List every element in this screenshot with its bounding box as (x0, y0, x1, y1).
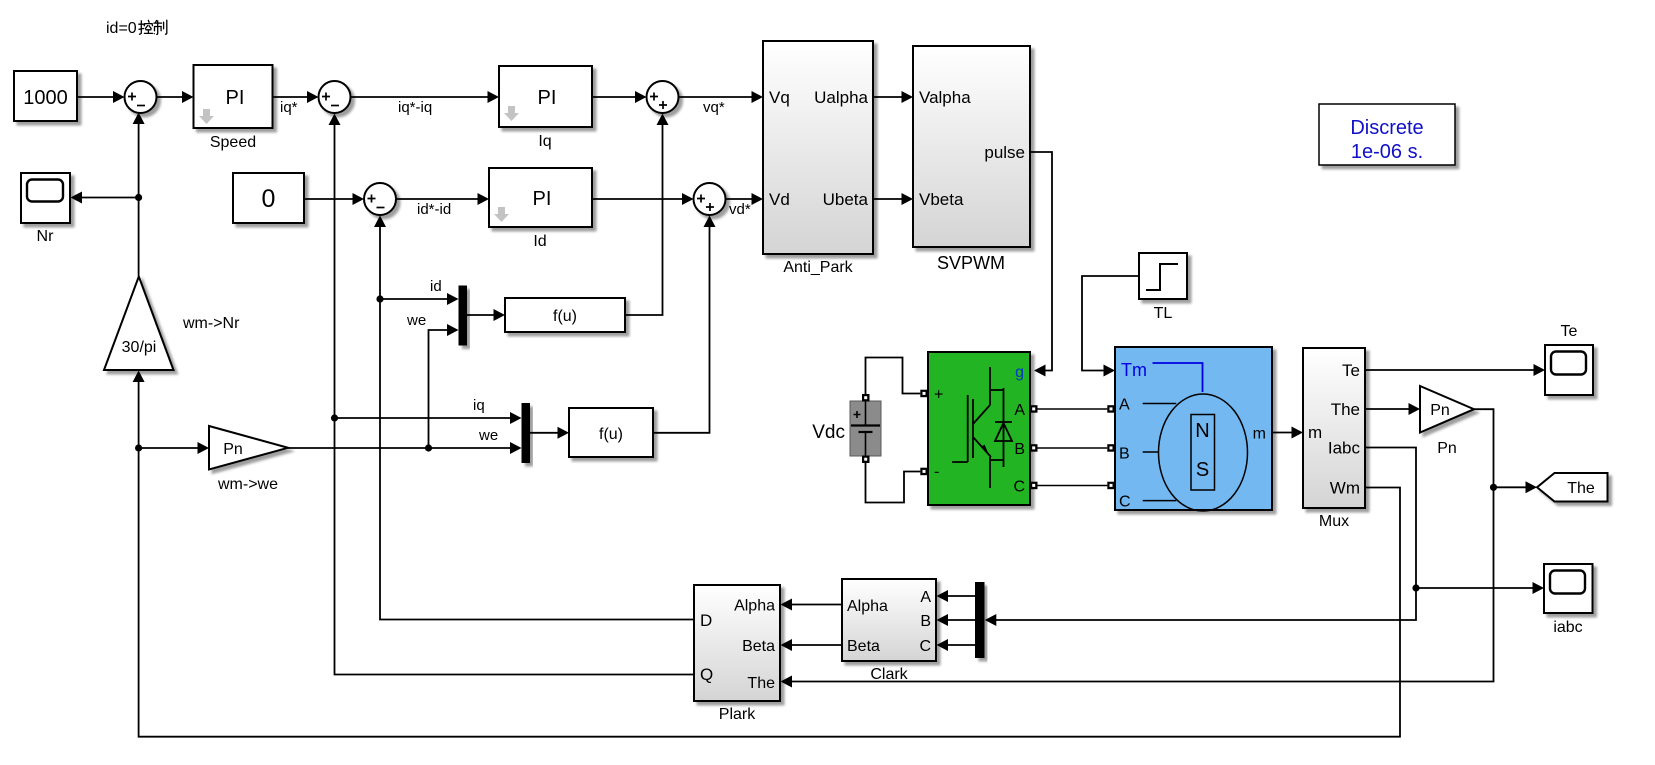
svg-text:C: C (919, 638, 931, 655)
svg-text:C: C (1013, 479, 1025, 496)
wire f(u)1 to sum4 bottom (625, 114, 669, 316)
wire iq tap to mux2 (335, 397, 522, 424)
svg-text:Vdc: Vdc (812, 422, 845, 443)
svg-text:B: B (1119, 446, 1130, 463)
svg-text:D: D (700, 611, 712, 630)
scope Te (1545, 323, 1593, 395)
wire 1000 to sum1 (77, 91, 125, 103)
svg-text:30/pi: 30/pi (122, 339, 157, 356)
wire Clark Beta to Plark Beta (781, 639, 843, 651)
wire motor m to Mux (1272, 427, 1303, 439)
svg-text:wm->Nr: wm->Nr (182, 315, 240, 332)
wire id tap to mux1 (380, 278, 459, 305)
inverter bridge (Universal Bridge) (928, 352, 1030, 505)
wire demux A to Clark A (937, 590, 976, 602)
port square bridge minus (920, 468, 928, 476)
svg-text:Iq: Iq (538, 133, 551, 150)
port square motor A (1107, 405, 1115, 413)
wire TL to motor Tm (1082, 276, 1139, 377)
svg-text:Wm: Wm (1330, 479, 1360, 498)
sum S5 (694, 183, 726, 215)
wire Mux Te to scope Te (1365, 364, 1545, 376)
svg-text:id=0: id=0 (106, 20, 137, 37)
svg-text:Vq: Vq (769, 88, 790, 107)
svg-text:SVPWM: SVPWM (937, 253, 1005, 273)
constant 0 (233, 173, 304, 223)
gain Pn right (1420, 386, 1474, 457)
wire tap to scope iabc (1416, 582, 1544, 594)
svg-text:1e-06 s.: 1e-06 s. (1351, 141, 1423, 163)
svg-text:we: we (406, 312, 426, 329)
wire 30/pi output up to sum1 (133, 113, 145, 277)
svg-text:iq*-iq: iq*-iq (398, 99, 432, 116)
svg-text:S: S (1196, 459, 1209, 481)
svg-text:Q: Q (700, 665, 713, 684)
PI controller Iq (499, 66, 592, 150)
svg-text:Speed: Speed (210, 134, 256, 151)
wire mux1 output to f(u)1 (467, 309, 505, 321)
wire tap to goto tag The (1494, 481, 1538, 493)
svg-text:Discrete: Discrete (1350, 117, 1423, 139)
svg-text:Clark: Clark (870, 666, 908, 683)
svg-text:g: g (1015, 364, 1024, 381)
goto tag The (1537, 473, 1608, 502)
svg-text:PI: PI (538, 87, 557, 109)
port square bridge B (1030, 444, 1038, 452)
function f(u) upper (505, 298, 625, 332)
svg-text:TL: TL (1154, 305, 1173, 322)
sum S1 (125, 81, 157, 113)
sum S4 (647, 81, 679, 113)
wire demux C to Clark C (937, 639, 976, 651)
sum S3 (364, 183, 396, 215)
svg-text:N: N (1195, 420, 1209, 442)
wire bridge A to motor A (1038, 408, 1108, 410)
svg-text:wm->we: wm->we (217, 476, 278, 493)
svg-text:+: + (934, 387, 943, 404)
scope Nr (21, 173, 70, 245)
svg-text:f(u): f(u) (553, 308, 577, 325)
scope iabc (1544, 564, 1593, 636)
subsystem Anti_Park (763, 41, 873, 276)
wire Mux The to gain Pn (1365, 403, 1420, 415)
wire 0 to sum3 (304, 193, 364, 205)
port square battery minus (862, 456, 870, 464)
PI controller Speed (194, 65, 273, 151)
wire Pn output down to Plark The (781, 409, 1498, 687)
svg-text:C: C (1119, 494, 1131, 511)
svg-text:1000: 1000 (23, 87, 68, 109)
svg-text:The: The (747, 675, 775, 692)
subsystem SVPWM (913, 46, 1030, 273)
port square battery plus (862, 394, 870, 402)
subsystem Plark (694, 585, 780, 723)
svg-text:PI: PI (533, 188, 552, 210)
sum S2 (319, 81, 351, 113)
svg-text:id: id (430, 278, 442, 295)
step source TL (1139, 253, 1187, 322)
svg-text:Te: Te (1561, 323, 1578, 340)
wire sum5 to AntiPark Vd, label vd* (726, 193, 764, 218)
port square motor C (1107, 482, 1115, 490)
wire Pn output to mux2 we input (288, 427, 522, 454)
svg-text:Beta: Beta (847, 638, 880, 655)
svg-text:Plark: Plark (719, 706, 756, 723)
svg-text:Ubeta: Ubeta (823, 190, 869, 209)
svg-text:Ualpha: Ualpha (814, 88, 868, 107)
svg-text:m: m (1253, 426, 1266, 443)
port square bridge plus (920, 390, 928, 398)
svg-text:Te: Te (1342, 361, 1360, 380)
svg-text:iq*: iq* (280, 99, 298, 116)
demux bar iabc (975, 582, 985, 658)
wire bridge C to motor C (1038, 485, 1108, 487)
svg-text:Vd: Vd (769, 190, 790, 209)
svg-text:id*-id: id*-id (417, 201, 451, 218)
svg-text:Pn: Pn (1430, 402, 1450, 419)
svg-text:0: 0 (262, 185, 276, 213)
svg-text:Valpha: Valpha (919, 88, 971, 107)
wire Clark Alpha to Plark Alpha (781, 599, 843, 611)
gain Pn wm->we (209, 426, 288, 493)
svg-text:iabc: iabc (1553, 619, 1582, 636)
svg-text:iq: iq (473, 397, 485, 414)
wire Speed to sum2, label iq* (273, 91, 319, 116)
svg-text:vq*: vq* (703, 99, 725, 116)
svg-text:A: A (1119, 397, 1130, 414)
port square bridge A (1030, 405, 1038, 413)
annotation id=0控制 (106, 20, 167, 37)
svg-text:The: The (1331, 400, 1360, 419)
wire Mux Wm long feedback to gain 30/pi (139, 448, 1400, 737)
port square bridge C (1030, 482, 1038, 490)
svg-text:Nr: Nr (37, 228, 55, 245)
demux Mux (selector) (1303, 348, 1365, 530)
wire Ubeta to Vbeta (873, 193, 913, 205)
svg-text:Alpha: Alpha (734, 598, 775, 615)
wire mux2 output to f(u)2 (530, 427, 569, 439)
mux M2 iq-we (522, 403, 531, 463)
gain 30/pi wm->Nr (104, 277, 240, 371)
svg-text:f(u): f(u) (599, 426, 623, 443)
subsystem Clark (842, 579, 936, 683)
wire battery minus to bridge (866, 463, 921, 503)
svg-text:Pn: Pn (1437, 440, 1457, 457)
svg-text:Alpha: Alpha (847, 598, 888, 615)
wire tap to Nr scope (71, 192, 143, 204)
svg-text:Tm: Tm (1121, 360, 1147, 380)
wire Wm feedback to Pn input (135, 442, 209, 454)
svg-text:Vbeta: Vbeta (919, 190, 964, 209)
wire id feedback vertical from Plark D to sum3 (374, 216, 694, 620)
wire sum2 to Iq PI, label iq*-iq (351, 91, 500, 116)
svg-text:The: The (1567, 480, 1595, 497)
svg-text:A: A (920, 589, 931, 606)
wire f(u)2 to sum5 bottom (653, 216, 716, 433)
PMSM motor block (1115, 347, 1272, 511)
wire Ualpha to Valpha (873, 91, 913, 103)
constant 1000 (14, 71, 77, 121)
function f(u) lower (569, 408, 653, 457)
svg-text:vd*: vd* (729, 201, 751, 218)
svg-text:A: A (1014, 402, 1025, 419)
wire Id PI to sum5 (592, 193, 694, 205)
wire sum3 to Id PI, label id*-id (396, 193, 489, 218)
svg-text:B: B (1014, 441, 1025, 458)
battery Vdc (812, 401, 881, 456)
svg-text:B: B (920, 613, 931, 630)
wire we branch up to mux1 (406, 312, 459, 448)
svg-text:Mux: Mux (1319, 513, 1349, 530)
svg-text:Pn: Pn (223, 441, 243, 458)
wire Mux Iabc feedback to demux bar (985, 448, 1420, 627)
PI controller Id (489, 168, 592, 250)
annotation Discrete 1e-06 s. (1319, 104, 1455, 165)
mux M1 id-we (459, 286, 468, 346)
wire Iq PI to sum4 (592, 91, 647, 103)
svg-text:Beta: Beta (742, 638, 775, 655)
svg-text:Id: Id (533, 233, 546, 250)
svg-text:m: m (1308, 423, 1322, 442)
wire iq feedback vertical from Plark Q to sum2 (329, 114, 695, 675)
wire sum4 to AntiPark Vq, label vq* (679, 91, 764, 116)
svg-text:PI: PI (226, 87, 245, 109)
wire pulse to bridge g (1030, 152, 1052, 377)
wire battery plus to bridge (866, 358, 921, 395)
wire bridge B to motor B (1038, 447, 1108, 449)
svg-text:pulse: pulse (984, 143, 1025, 162)
svg-text:-: - (934, 464, 939, 481)
wire demux B to Clark B (937, 614, 976, 626)
svg-text:Iabc: Iabc (1328, 439, 1361, 458)
wire Wm up into 30/pi input (133, 371, 145, 449)
svg-text:we: we (478, 427, 498, 444)
svg-text:Anti_Park: Anti_Park (783, 259, 853, 276)
wire sum1 to Speed PI (157, 91, 194, 103)
port square motor B (1107, 444, 1115, 452)
